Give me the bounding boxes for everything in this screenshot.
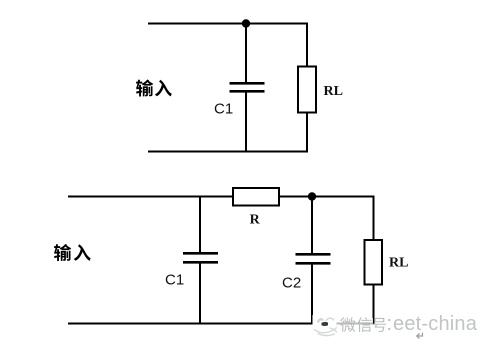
- resistor RL (circuit 2): rectangle body: [365, 240, 383, 285]
- wire: circuit 2 top rail, left segment (input to resistor R): [68, 196, 233, 198]
- wire: RL top lead (circuit 2, corner from top rail): [373, 196, 375, 241]
- svg-text:C1: C1: [165, 272, 184, 289]
- wire: C1 upper lead (circuit 1): [245, 24, 247, 84]
- svg-text:RL: RL: [389, 256, 408, 271]
- watermark return-arrow glyph: [417, 333, 423, 339]
- label 输入 (input), circuit 1: [136, 80, 172, 97]
- capacitor C1 (circuit 1): two plates: [230, 83, 265, 91]
- wire: RL bottom lead (circuit 2): [373, 285, 375, 325]
- svg-text:RL: RL: [324, 84, 343, 99]
- wire: C2 upper lead (circuit 2): [311, 197, 313, 255]
- svg-text:eet-china: eet-china: [393, 313, 478, 335]
- svg-text:C1: C1: [214, 101, 233, 118]
- wire: circuit 1 bottom rail: [148, 151, 308, 153]
- svg-text:R: R: [250, 213, 261, 228]
- wire: C1 upper lead (circuit 2): [199, 197, 201, 254]
- wire: C1 lower lead (circuit 2): [199, 262, 201, 324]
- wire: C1 lower lead (circuit 1): [245, 91, 247, 152]
- capacitor C2 (circuit 2): two plates: [296, 254, 331, 263]
- svg-text:C2: C2: [282, 275, 301, 292]
- watermark text 微信号 (WeChat ID), gray: [340, 317, 386, 332]
- label 输入 (input), circuit 2: [54, 244, 91, 261]
- capacitor C1 (circuit 2): two plates: [183, 253, 218, 262]
- node A: junction dot on circuit 1 top rail: [242, 19, 250, 27]
- wire: RL bottom lead (circuit 1): [306, 113, 308, 153]
- resistor R (circuit 2): rectangle body in series: [233, 188, 279, 206]
- wire: C2 lower lead (circuit 2): [311, 263, 313, 324]
- svg-text::: :: [387, 313, 393, 335]
- wire: circuit 2 bottom rail: [68, 323, 375, 325]
- wire: circuit 2 top rail, right segment (R to node B to RL branch): [279, 196, 374, 198]
- wire: RL top lead (circuit 1, corner from top rail): [306, 24, 307, 67]
- watermark background patch dimming rail under 微信号: [337, 318, 374, 328]
- node B: junction dot after resistor R (circuit 2): [308, 192, 316, 200]
- resistor RL (circuit 1): rectangle body: [298, 67, 316, 113]
- watermark icon (eet-china logo, light gray) over bottom rail: [313, 315, 339, 336]
- wire: circuit 1 top rail (input top to node A to RL branch): [148, 23, 307, 25]
